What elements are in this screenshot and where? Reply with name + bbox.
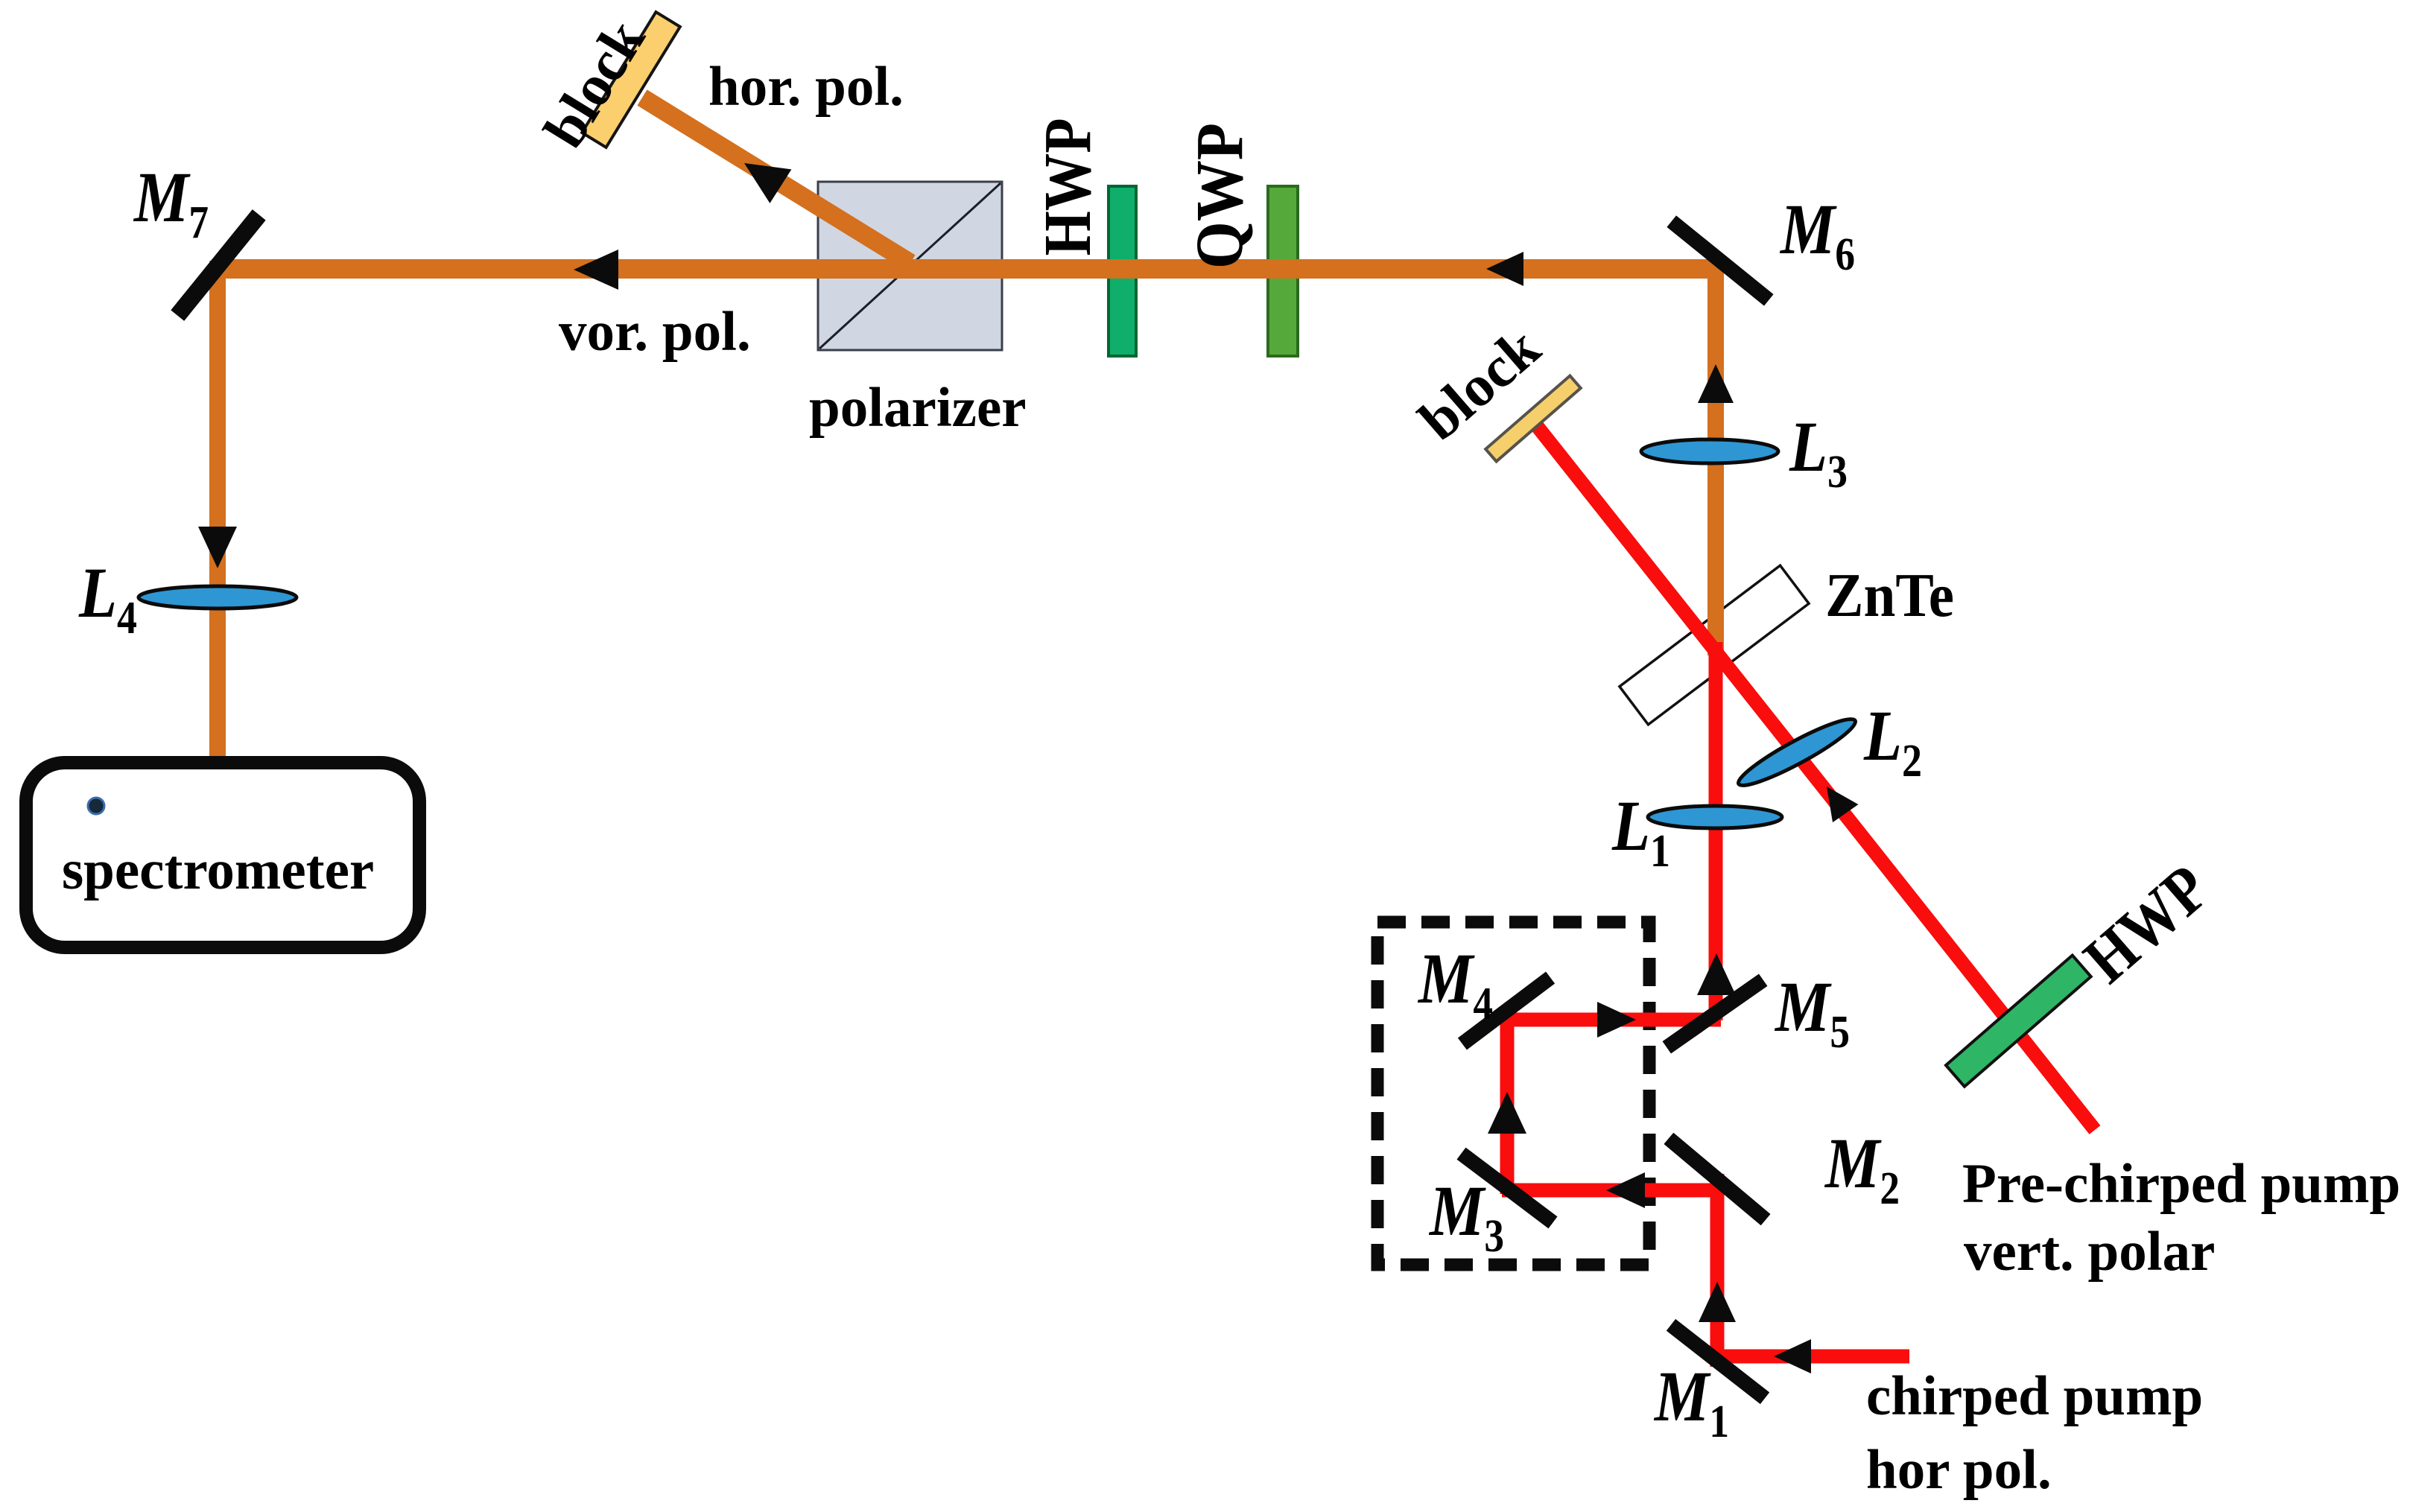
svg-text:L3: L3: [1789, 407, 1848, 498]
svg-text:HWP: HWP: [2070, 851, 2223, 997]
svg-text:polarizer: polarizer: [809, 377, 1027, 439]
svg-text:Pre-chirped pump: Pre-chirped pump: [1962, 1153, 2400, 1215]
svg-text:hor pol.: hor pol.: [1866, 1439, 2052, 1501]
svg-text:ZnTe: ZnTe: [1825, 561, 1954, 630]
svg-text:vert. polar: vert. polar: [1964, 1221, 2215, 1283]
svg-text:M4: M4: [1417, 938, 1493, 1029]
svg-text:M6: M6: [1779, 189, 1855, 280]
svg-text:vor. pol.: vor. pol.: [559, 301, 751, 363]
svg-text:spectrometer: spectrometer: [62, 839, 374, 901]
svg-text:M2: M2: [1824, 1123, 1900, 1214]
svg-text:HWP: HWP: [1031, 118, 1105, 256]
svg-text:L4: L4: [78, 553, 137, 644]
svg-text:L2: L2: [1863, 696, 1922, 787]
svg-text:hor. pol.: hor. pol.: [708, 56, 904, 118]
svg-text:QWP: QWP: [1183, 123, 1257, 269]
svg-text:L1: L1: [1611, 786, 1670, 877]
svg-text:chirped pump: chirped pump: [1866, 1365, 2203, 1427]
svg-text:M5: M5: [1774, 967, 1850, 1058]
svg-text:M7: M7: [133, 157, 209, 248]
